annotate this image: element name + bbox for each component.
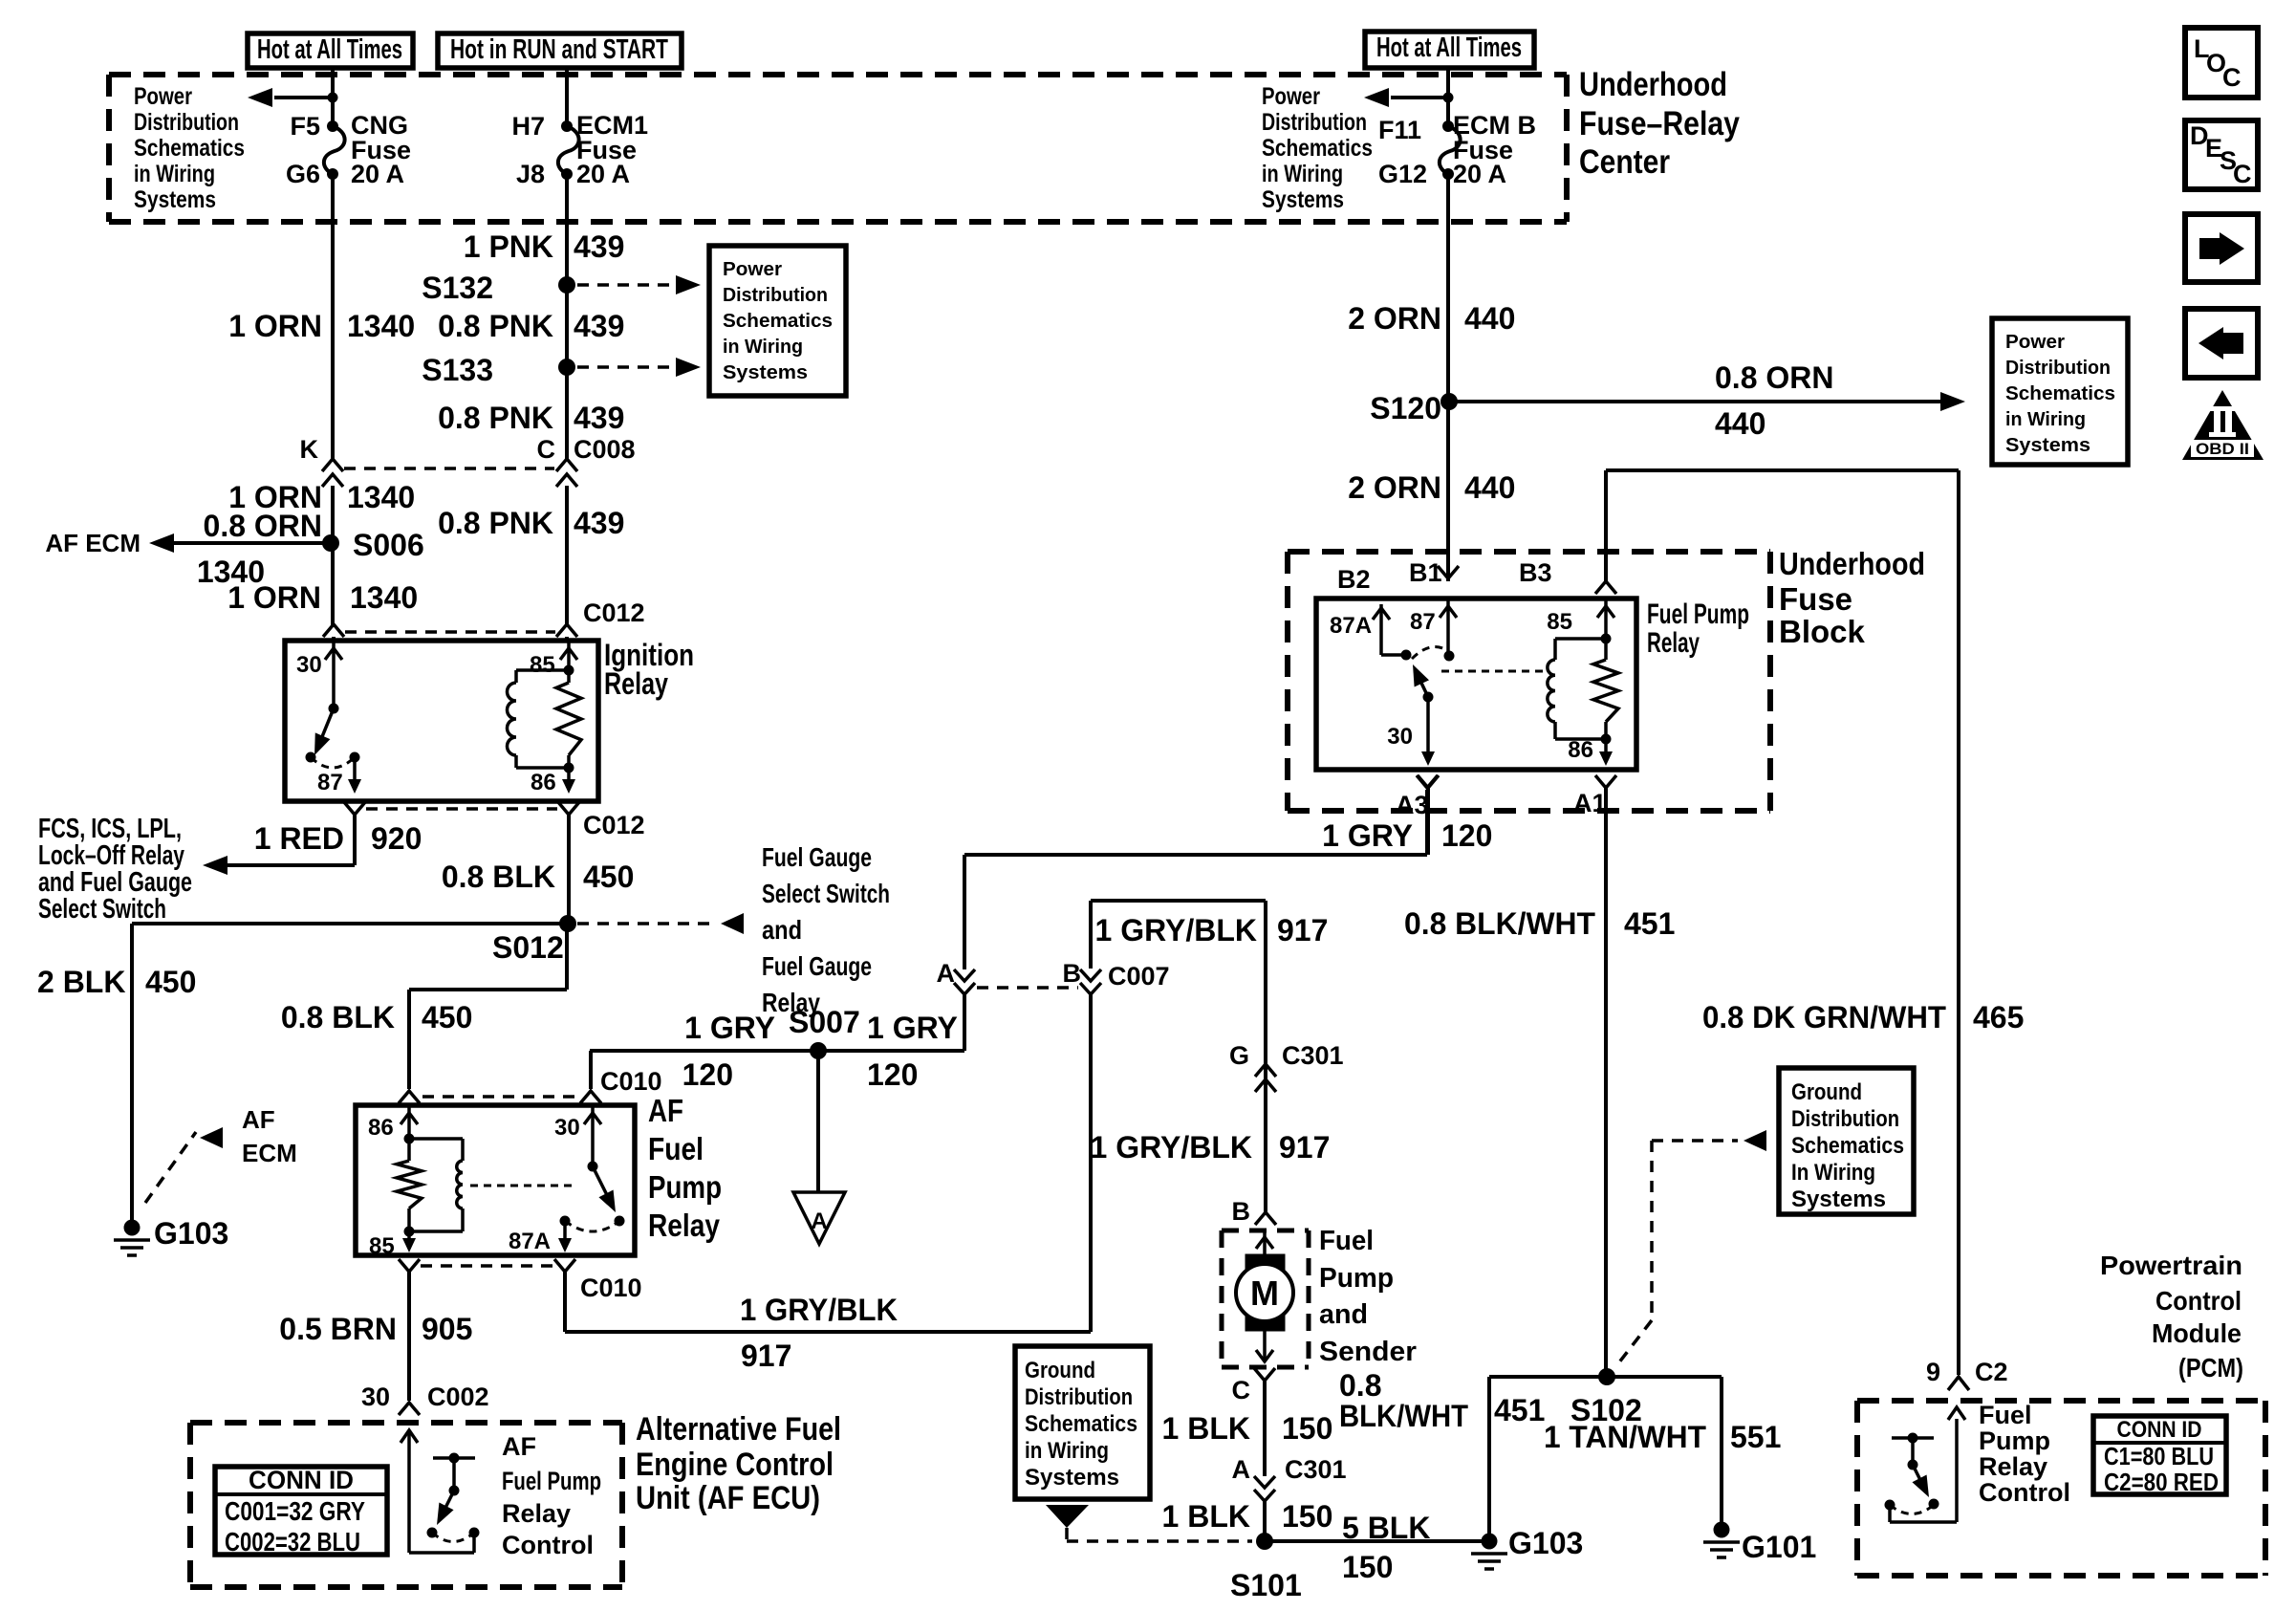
- svg-text:87: 87: [1410, 609, 1436, 635]
- svg-text:Hot at All Times: Hot at All Times: [1376, 33, 1522, 63]
- svg-text:F11: F11: [1378, 116, 1421, 144]
- svg-text:Module: Module: [2152, 1318, 2242, 1348]
- svg-text:G103: G103: [154, 1216, 228, 1251]
- svg-text:Powertrain: Powertrain: [2100, 1251, 2242, 1280]
- svg-text:87A: 87A: [509, 1229, 551, 1254]
- svg-text:Relay: Relay: [1647, 627, 1700, 659]
- svg-text:120: 120: [682, 1057, 733, 1092]
- svg-text:CONN ID: CONN ID: [249, 1466, 354, 1494]
- svg-text:A3: A3: [1396, 791, 1429, 819]
- svg-text:A: A: [1232, 1455, 1251, 1484]
- svg-text:Distribution: Distribution: [723, 285, 828, 306]
- svg-text:5 BLK: 5 BLK: [1342, 1511, 1430, 1545]
- svg-text:C010: C010: [600, 1067, 662, 1096]
- svg-text:Systems: Systems: [1791, 1186, 1886, 1212]
- svg-text:F5: F5: [290, 112, 320, 141]
- svg-text:K: K: [300, 435, 319, 464]
- svg-text:C012: C012: [583, 599, 645, 627]
- svg-text:G: G: [1229, 1041, 1249, 1070]
- svg-text:C008: C008: [574, 435, 636, 464]
- svg-text:1 GRY: 1 GRY: [1322, 818, 1413, 853]
- svg-text:0.8 ORN: 0.8 ORN: [1715, 360, 1833, 395]
- svg-text:Power: Power: [2005, 332, 2065, 353]
- svg-text:917: 917: [741, 1339, 791, 1373]
- svg-text:A1: A1: [1573, 789, 1607, 817]
- svg-text:in Wiring: in Wiring: [723, 337, 803, 358]
- svg-text:C: C: [537, 435, 556, 464]
- svg-text:Underhood: Underhood: [1779, 546, 1925, 581]
- svg-text:450: 450: [145, 965, 196, 999]
- svg-text:Distribution: Distribution: [2005, 358, 2111, 379]
- svg-text:M: M: [1250, 1274, 1279, 1313]
- svg-text:C301: C301: [1282, 1041, 1344, 1070]
- svg-text:451: 451: [1494, 1393, 1545, 1427]
- svg-text:(PCM): (PCM): [2178, 1353, 2243, 1382]
- svg-text:C2: C2: [1975, 1358, 2008, 1386]
- svg-text:Block: Block: [1779, 614, 1866, 649]
- svg-text:C301: C301: [1285, 1455, 1347, 1484]
- svg-text:S133: S133: [422, 353, 493, 387]
- svg-text:85: 85: [369, 1233, 395, 1259]
- svg-text:Power: Power: [1262, 83, 1320, 110]
- svg-text:1 TAN/WHT: 1 TAN/WHT: [1544, 1420, 1706, 1454]
- svg-text:Relay: Relay: [604, 666, 668, 701]
- svg-text:A: A: [811, 1208, 827, 1234]
- svg-text:B1: B1: [1409, 558, 1442, 587]
- svg-text:1 GRY/BLK: 1 GRY/BLK: [1091, 1130, 1253, 1165]
- svg-text:C002=32 BLU: C002=32 BLU: [225, 1527, 360, 1557]
- svg-text:Relay: Relay: [1979, 1452, 2047, 1481]
- svg-text:in Wiring: in Wiring: [1262, 161, 1343, 187]
- svg-text:150: 150: [1282, 1499, 1332, 1534]
- svg-text:Pump: Pump: [1979, 1426, 2050, 1455]
- svg-text:Schematics: Schematics: [134, 135, 245, 162]
- svg-text:1 GRY: 1 GRY: [684, 1011, 775, 1045]
- svg-text:Hot in RUN and START: Hot in RUN and START: [450, 34, 668, 65]
- svg-text:C002: C002: [427, 1382, 489, 1411]
- svg-text:1 ORN: 1 ORN: [227, 580, 321, 615]
- svg-text:87: 87: [317, 770, 343, 795]
- svg-text:Center: Center: [1579, 143, 1670, 181]
- svg-text:Schematics: Schematics: [1262, 135, 1373, 162]
- svg-text:439: 439: [574, 229, 624, 264]
- svg-text:30: 30: [361, 1382, 390, 1411]
- svg-text:S007: S007: [789, 1005, 860, 1039]
- svg-text:86: 86: [368, 1115, 394, 1141]
- svg-text:0.8 ORN: 0.8 ORN: [204, 509, 322, 543]
- svg-text:and: and: [762, 915, 802, 945]
- svg-text:OBD II: OBD II: [2196, 440, 2249, 458]
- svg-text:H7: H7: [511, 112, 545, 141]
- svg-text:440: 440: [1464, 470, 1515, 505]
- svg-text:AF: AF: [242, 1105, 275, 1134]
- svg-text:Engine Control: Engine Control: [636, 1447, 834, 1483]
- svg-text:465: 465: [1973, 1000, 2024, 1034]
- svg-text:20 A: 20 A: [576, 160, 630, 188]
- svg-text:Ground: Ground: [1025, 1358, 1095, 1383]
- svg-text:Fuel Pump: Fuel Pump: [502, 1467, 601, 1495]
- svg-text:S101: S101: [1230, 1568, 1302, 1602]
- svg-text:905: 905: [422, 1312, 472, 1346]
- svg-text:920: 920: [371, 821, 422, 856]
- svg-text:1 BLK: 1 BLK: [1162, 1411, 1250, 1446]
- svg-text:Relay: Relay: [648, 1208, 721, 1243]
- svg-text:Schematics: Schematics: [723, 311, 833, 332]
- svg-text:Relay: Relay: [502, 1499, 571, 1528]
- svg-text:451: 451: [1624, 906, 1675, 941]
- svg-text:1340: 1340: [347, 309, 415, 343]
- svg-text:150: 150: [1342, 1550, 1393, 1584]
- svg-text:Systems: Systems: [134, 186, 216, 213]
- svg-text:Underhood: Underhood: [1579, 66, 1727, 103]
- svg-text:0.8 BLK: 0.8 BLK: [281, 1000, 395, 1034]
- svg-text:440: 440: [1715, 406, 1765, 441]
- svg-text:Sender: Sender: [1319, 1337, 1417, 1367]
- svg-text:Fuel: Fuel: [1319, 1226, 1374, 1256]
- svg-text:in Wiring: in Wiring: [2005, 409, 2086, 430]
- svg-text:0.8 BLK/WHT: 0.8 BLK/WHT: [1404, 906, 1595, 941]
- svg-text:S012: S012: [492, 930, 564, 965]
- svg-text:C2=80 RED: C2=80 RED: [2104, 1468, 2219, 1496]
- svg-text:Pump: Pump: [648, 1169, 722, 1205]
- svg-text:AF: AF: [648, 1093, 683, 1128]
- svg-text:Power: Power: [723, 259, 782, 280]
- svg-text:Schematics: Schematics: [2005, 383, 2115, 404]
- svg-text:in Wiring: in Wiring: [1025, 1438, 1109, 1464]
- svg-text:450: 450: [422, 1000, 472, 1034]
- svg-text:S120: S120: [1370, 391, 1441, 425]
- svg-text:Select Switch: Select Switch: [38, 894, 166, 925]
- svg-text:20 A: 20 A: [351, 160, 404, 188]
- svg-text:439: 439: [574, 506, 624, 540]
- svg-text:20 A: 20 A: [1453, 160, 1506, 188]
- svg-text:Distribution: Distribution: [134, 109, 239, 136]
- svg-text:30: 30: [1387, 724, 1413, 750]
- svg-text:Distribution: Distribution: [1791, 1106, 1899, 1132]
- svg-text:1340: 1340: [350, 580, 418, 615]
- svg-text:S132: S132: [422, 271, 493, 305]
- svg-text:0.8 BLK: 0.8 BLK: [442, 860, 555, 894]
- svg-text:C001=32 GRY: C001=32 GRY: [225, 1496, 365, 1526]
- svg-text:C1=80 BLU: C1=80 BLU: [2104, 1442, 2214, 1470]
- svg-text:Schematics: Schematics: [1791, 1133, 1904, 1159]
- svg-text:917: 917: [1279, 1130, 1330, 1165]
- svg-text:917: 917: [1277, 913, 1328, 947]
- svg-text:450: 450: [583, 860, 634, 894]
- svg-text:2 ORN: 2 ORN: [1348, 301, 1441, 336]
- svg-text:B3: B3: [1519, 558, 1552, 587]
- svg-text:Fuse: Fuse: [1779, 581, 1852, 617]
- svg-text:B2: B2: [1337, 565, 1371, 594]
- svg-text:Pump: Pump: [1319, 1263, 1394, 1294]
- svg-text:440: 440: [1464, 301, 1515, 336]
- svg-text:1 ORN: 1 ORN: [228, 309, 322, 343]
- svg-text:Control: Control: [1979, 1478, 2070, 1507]
- svg-text:551: 551: [1730, 1420, 1781, 1454]
- svg-text:G6: G6: [286, 160, 320, 188]
- svg-text:85: 85: [530, 652, 555, 678]
- svg-text:Systems: Systems: [1025, 1465, 1119, 1491]
- svg-text:Fuel Gauge: Fuel Gauge: [762, 951, 872, 981]
- svg-text:Systems: Systems: [723, 362, 808, 383]
- svg-text:C: C: [2222, 63, 2242, 92]
- svg-text:0.8 PNK: 0.8 PNK: [438, 506, 553, 540]
- svg-text:Systems: Systems: [2005, 435, 2090, 456]
- svg-text:Systems: Systems: [1262, 186, 1344, 213]
- svg-text:0.8: 0.8: [1339, 1368, 1381, 1403]
- svg-text:Distribution: Distribution: [1025, 1384, 1133, 1410]
- svg-text:Fuel Pump: Fuel Pump: [1647, 599, 1749, 630]
- svg-text:Fuel: Fuel: [648, 1131, 704, 1166]
- svg-text:30: 30: [296, 652, 322, 678]
- svg-text:0.5 BRN: 0.5 BRN: [279, 1312, 397, 1346]
- svg-text:86: 86: [531, 770, 556, 795]
- svg-text:87A: 87A: [1330, 613, 1372, 639]
- svg-text:120: 120: [1441, 818, 1492, 853]
- svg-text:in Wiring: in Wiring: [134, 161, 215, 187]
- svg-text:Power: Power: [134, 83, 192, 110]
- svg-text:AF: AF: [502, 1432, 536, 1461]
- svg-text:J8: J8: [516, 160, 545, 188]
- svg-text:G101: G101: [1742, 1530, 1816, 1564]
- svg-text:BLK/WHT: BLK/WHT: [1339, 1399, 1468, 1433]
- svg-text:CONN ID: CONN ID: [2117, 1417, 2202, 1443]
- svg-text:1 GRY: 1 GRY: [867, 1011, 958, 1045]
- svg-text:1 PNK: 1 PNK: [464, 229, 553, 264]
- svg-text:In Wiring: In Wiring: [1791, 1160, 1875, 1186]
- svg-text:C: C: [1232, 1376, 1251, 1404]
- svg-text:85: 85: [1547, 609, 1572, 635]
- svg-text:0.8 PNK: 0.8 PNK: [438, 401, 553, 435]
- svg-text:G103: G103: [1508, 1526, 1583, 1560]
- svg-text:Unit (AF ECU): Unit (AF ECU): [636, 1480, 820, 1516]
- svg-text:Alternative Fuel: Alternative Fuel: [636, 1411, 841, 1448]
- svg-text:Fuel: Fuel: [1979, 1401, 2032, 1429]
- svg-text:150: 150: [1282, 1411, 1332, 1446]
- svg-text:ECM: ECM: [242, 1139, 297, 1167]
- svg-text:Schematics: Schematics: [1025, 1411, 1137, 1437]
- svg-text:1 GRY/BLK: 1 GRY/BLK: [740, 1293, 898, 1327]
- svg-text:0.8 DK GRN/WHT: 0.8 DK GRN/WHT: [1702, 1000, 1946, 1034]
- svg-text:C007: C007: [1108, 962, 1170, 991]
- svg-text:Fuse–Relay: Fuse–Relay: [1579, 105, 1740, 142]
- svg-text:9: 9: [1926, 1358, 1940, 1386]
- svg-text:Distribution: Distribution: [1262, 109, 1367, 136]
- svg-text:C010: C010: [580, 1274, 642, 1302]
- svg-text:S006: S006: [353, 528, 424, 562]
- svg-text:A: A: [937, 959, 956, 988]
- svg-text:Control: Control: [2155, 1286, 2242, 1316]
- svg-text:0.8 PNK: 0.8 PNK: [438, 309, 553, 343]
- svg-text:120: 120: [867, 1057, 918, 1092]
- svg-text:Control: Control: [502, 1531, 594, 1559]
- svg-text:Fuel Gauge: Fuel Gauge: [762, 842, 872, 872]
- svg-text:Select Switch: Select Switch: [762, 879, 890, 908]
- svg-text:and: and: [1319, 1299, 1368, 1330]
- svg-text:B: B: [1063, 959, 1082, 988]
- svg-text:AF ECM: AF ECM: [45, 529, 141, 557]
- svg-text:1 RED: 1 RED: [254, 821, 344, 856]
- svg-text:2 BLK: 2 BLK: [37, 965, 125, 999]
- svg-text:B: B: [1232, 1197, 1251, 1226]
- svg-text:C012: C012: [583, 811, 645, 839]
- svg-text:439: 439: [574, 309, 624, 343]
- svg-text:1 BLK: 1 BLK: [1162, 1499, 1250, 1534]
- svg-text:Ground: Ground: [1791, 1079, 1862, 1105]
- svg-text:30: 30: [554, 1115, 580, 1141]
- svg-text:1 GRY/BLK: 1 GRY/BLK: [1095, 913, 1258, 947]
- svg-text:1340: 1340: [347, 480, 415, 514]
- svg-text:86: 86: [1568, 737, 1593, 763]
- svg-text:2 ORN: 2 ORN: [1348, 470, 1441, 505]
- svg-text:439: 439: [574, 401, 624, 435]
- svg-text:C: C: [2233, 160, 2252, 188]
- svg-text:Hot at All Times: Hot at All Times: [257, 34, 402, 65]
- svg-text:G12: G12: [1378, 160, 1427, 188]
